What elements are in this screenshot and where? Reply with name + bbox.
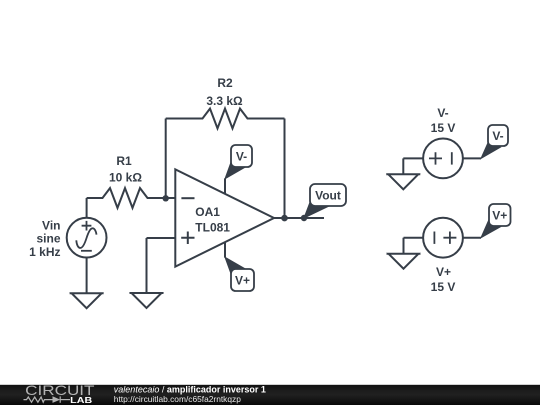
svg-text:V+: V+ xyxy=(235,274,250,288)
svg-text:Vin: Vin xyxy=(42,218,60,232)
voltage source V2 xyxy=(423,139,463,179)
wire xyxy=(86,258,88,294)
node junction xyxy=(301,215,307,221)
wire xyxy=(463,157,481,159)
wire xyxy=(403,157,423,159)
wire xyxy=(146,238,148,293)
wire xyxy=(463,237,481,239)
wire xyxy=(224,242,226,258)
node flag V- (op-amp) xyxy=(225,145,252,179)
footer bar xyxy=(0,385,540,405)
svg-text:valentecaio / amplificador inv: valentecaio / amplificador inversor 1 xyxy=(114,385,266,395)
wire xyxy=(86,198,88,218)
node junction xyxy=(163,195,169,201)
ground xyxy=(386,174,420,189)
svg-text:Vout: Vout xyxy=(315,189,341,203)
svg-text:R1: R1 xyxy=(116,154,132,168)
svg-text:15 V: 15 V xyxy=(431,121,456,135)
ground xyxy=(387,254,421,269)
svg-text:R2: R2 xyxy=(217,76,233,90)
wire xyxy=(403,238,405,254)
wire xyxy=(404,237,424,239)
wire xyxy=(147,237,176,239)
voltage source V3 xyxy=(423,218,463,258)
CircuitLab logo resistor-diode symbol xyxy=(24,396,71,402)
svg-text:sine: sine xyxy=(36,232,60,246)
node flag V- (source) xyxy=(481,125,508,158)
svg-text:V+: V+ xyxy=(492,209,507,223)
svg-text:LAB: LAB xyxy=(70,395,92,405)
svg-text:V-: V- xyxy=(492,129,503,143)
ground xyxy=(130,293,164,308)
svg-text:1 kHz: 1 kHz xyxy=(29,245,60,259)
node flag Vout xyxy=(304,184,346,218)
svg-text:10 kΩ: 10 kΩ xyxy=(109,171,142,185)
op-amp OA1 xyxy=(175,169,274,266)
svg-text:V-: V- xyxy=(236,150,247,164)
svg-text:TL081: TL081 xyxy=(195,220,230,234)
resistor R2 xyxy=(166,109,285,129)
svg-text:OA1: OA1 xyxy=(195,205,220,219)
svg-text:http://circuitlab.com/c65fa2rn: http://circuitlab.com/c65fa2rntkqzp xyxy=(114,394,241,404)
ground xyxy=(70,293,104,308)
svg-text:3.3 kΩ: 3.3 kΩ xyxy=(206,94,243,108)
svg-text:V-: V- xyxy=(437,106,448,120)
svg-text:15 V: 15 V xyxy=(431,280,456,294)
svg-text:V+: V+ xyxy=(436,265,451,279)
wire xyxy=(284,119,286,219)
wire xyxy=(165,119,167,199)
node junction xyxy=(281,215,288,222)
node flag V+ (source) xyxy=(481,204,511,238)
node flag V+ (op-amp) xyxy=(225,257,254,291)
wire xyxy=(402,158,404,174)
voltage source V1 (Vin) xyxy=(67,218,107,258)
wire xyxy=(274,217,324,219)
wire xyxy=(224,178,226,194)
resistor R1 xyxy=(87,188,176,208)
